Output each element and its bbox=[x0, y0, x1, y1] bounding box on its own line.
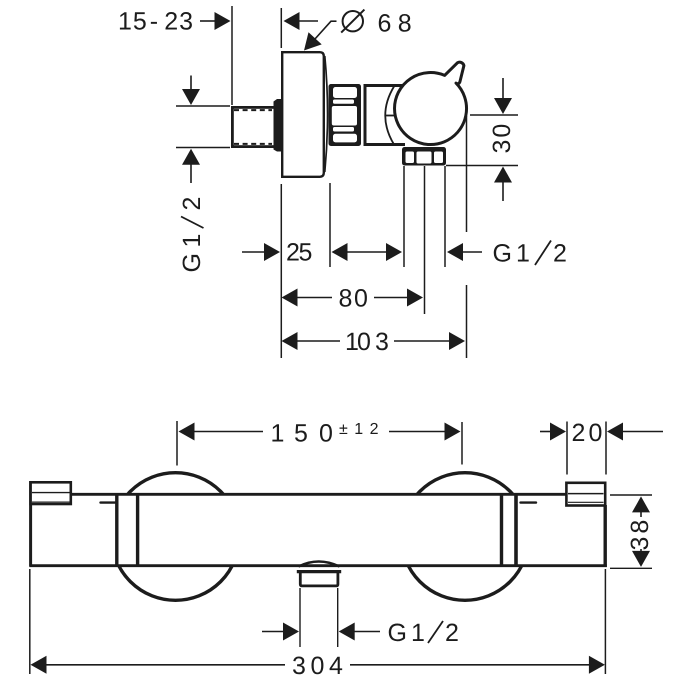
dim 304 extension right bbox=[604, 569, 606, 674]
dim 30 extension bottom bbox=[446, 165, 518, 167]
union nut ribbed bbox=[329, 84, 362, 146]
svg-text:8: 8 bbox=[398, 10, 412, 38]
svg-text:38: 38 bbox=[626, 517, 654, 551]
flange face extension bbox=[280, 8, 282, 48]
double arrow flange to outlet bbox=[332, 243, 403, 261]
dim 30 label (rotated) bbox=[488, 122, 516, 154]
dim 30 arrows bbox=[494, 78, 512, 201]
dim 20 extension lines bbox=[566, 422, 568, 475]
svg-text:2: 2 bbox=[178, 197, 206, 211]
svg-text:0: 0 bbox=[357, 328, 371, 356]
svg-text:2: 2 bbox=[445, 619, 459, 647]
G1/2 left extension lines bbox=[176, 105, 230, 107]
bar body fill bbox=[31, 494, 605, 566]
svg-text:8: 8 bbox=[339, 285, 353, 313]
extension line hex left bbox=[403, 166, 405, 267]
dia 68 leader bbox=[304, 21, 337, 50]
svg-text:0: 0 bbox=[589, 419, 603, 447]
bar top edge bbox=[70, 493, 567, 496]
dim 304 bbox=[31, 652, 605, 675]
dim 15-23 arrow right bbox=[284, 12, 319, 30]
svg-text:1: 1 bbox=[411, 619, 425, 647]
extension line knob right bbox=[466, 116, 468, 232]
extension line hex right bbox=[444, 166, 446, 267]
bar right edge bbox=[604, 505, 607, 567]
extension line flange bottom-left bbox=[280, 184, 282, 358]
right knob circle bbox=[401, 473, 529, 601]
dim 150 extension left bbox=[176, 421, 178, 466]
bar inner line right a bbox=[500, 495, 503, 565]
extension line flange right bbox=[329, 183, 331, 267]
dim 15-23 arrow left bbox=[200, 12, 231, 30]
dia 68 label bbox=[341, 10, 412, 38]
knob skirt arc bbox=[385, 87, 394, 145]
svg-text:2: 2 bbox=[572, 419, 586, 447]
dim 20 label bbox=[572, 419, 603, 447]
svg-text:6: 6 bbox=[378, 10, 392, 38]
svg-text:G: G bbox=[178, 253, 206, 272]
dim G1/2 bottom label bbox=[388, 619, 459, 647]
svg-text:15: 15 bbox=[118, 8, 148, 36]
bar inner line left b bbox=[136, 495, 139, 565]
dim 103 bbox=[282, 328, 466, 356]
svg-text:304: 304 bbox=[292, 652, 348, 675]
bar left edge bbox=[29, 481, 32, 567]
tick right bbox=[521, 501, 537, 503]
bar inner line right b bbox=[514, 495, 518, 565]
svg-text:5: 5 bbox=[299, 239, 313, 267]
svg-text:G: G bbox=[493, 240, 512, 268]
svg-text:G: G bbox=[388, 619, 407, 647]
outlet dome bbox=[299, 562, 340, 567]
union square G1/2 bbox=[232, 107, 278, 146]
dim G1/2 right arrow bbox=[447, 243, 482, 261]
dim G1/2 bottom arrows bbox=[262, 623, 380, 641]
svg-text:0: 0 bbox=[319, 420, 333, 448]
dim G1/2 right label bbox=[493, 240, 567, 268]
G1/2 left label (rotated) bbox=[178, 197, 206, 273]
svg-text:0: 0 bbox=[354, 285, 368, 313]
svg-text:1: 1 bbox=[271, 420, 285, 448]
svg-text:3: 3 bbox=[375, 328, 389, 356]
union collar bbox=[274, 99, 282, 152]
knob circle with lever bbox=[395, 62, 467, 144]
outlet hex nut bbox=[402, 147, 446, 166]
svg-text:1: 1 bbox=[178, 234, 206, 248]
dim 150 label bbox=[271, 420, 386, 448]
svg-text:23: 23 bbox=[164, 8, 194, 36]
outlet extension right bbox=[337, 588, 339, 647]
dim 38 label (rotated) bbox=[626, 517, 654, 551]
tick left bbox=[101, 501, 117, 503]
valve body bbox=[365, 86, 405, 145]
svg-text:2: 2 bbox=[553, 240, 567, 268]
G1/2 left dim arrows bbox=[182, 76, 200, 184]
dim 20 arrows bbox=[540, 423, 663, 441]
dim 304 extension left bbox=[29, 569, 31, 674]
dim 30 extension top bbox=[470, 114, 518, 116]
dim 38 extension bottom bbox=[610, 567, 652, 569]
svg-text:1: 1 bbox=[516, 240, 530, 268]
left wall cap bbox=[31, 482, 71, 504]
svg-text:±12: ±12 bbox=[339, 421, 385, 438]
dim 38 extension top bbox=[610, 494, 652, 496]
outlet body bbox=[300, 572, 338, 586]
bar inner line left a bbox=[115, 495, 118, 565]
dim 80 bbox=[282, 285, 424, 313]
svg-text:5: 5 bbox=[294, 420, 308, 448]
dim 15-23 label bbox=[118, 8, 194, 36]
dim 150 extension right bbox=[461, 422, 463, 465]
extension line hex center bbox=[424, 166, 426, 314]
bar bottom edge bbox=[29, 564, 606, 567]
dim 150 arrows bbox=[179, 423, 461, 441]
left knob circle bbox=[112, 473, 240, 601]
dim 38 arrows bbox=[632, 496, 650, 567]
dim 25 arrow bbox=[242, 243, 280, 261]
outlet top edge bbox=[297, 570, 341, 573]
outlet extension left bbox=[299, 588, 301, 647]
wall line extension bbox=[231, 6, 233, 105]
svg-text:30: 30 bbox=[488, 122, 516, 154]
svg-text:-: - bbox=[150, 8, 158, 36]
right wall cap bbox=[566, 483, 605, 506]
escutcheon flange bbox=[282, 52, 327, 177]
dim 25 label bbox=[286, 239, 312, 267]
